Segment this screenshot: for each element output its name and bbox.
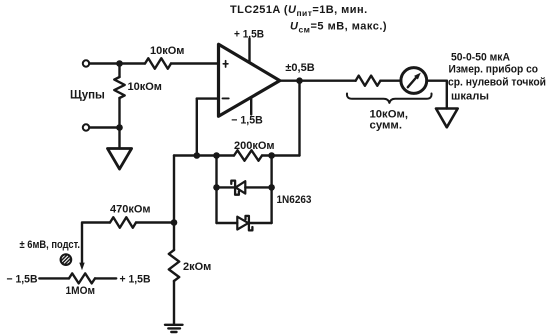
svg-text:Щупы: Щупы (70, 90, 105, 102)
svg-text:10кОм: 10кОм (150, 45, 184, 57)
terminal input top (83, 60, 89, 66)
svg-text:±0,5В: ±0,5В (285, 62, 314, 74)
wire R1 to op-amp + input (171, 62, 219, 64)
wire diode box left vertical (215, 156, 217, 224)
node output junction (296, 77, 303, 84)
node 470k junction (171, 219, 178, 226)
op-amp + input symbol (223, 63, 228, 65)
svg-text:+ 1,5В: + 1,5В (234, 29, 264, 41)
wire inverting input horizontal (197, 97, 219, 99)
svg-text:ср. нулевой точкой: ср. нулевой точкой (448, 77, 546, 89)
ground bottom (bars) (165, 324, 183, 326)
wire top input (89, 62, 145, 64)
resistor R5 2kOhm zigzag (169, 250, 179, 281)
wire left branch vertical upper (173, 156, 175, 251)
node diode box left top (213, 152, 220, 159)
ground input (triangle) (108, 149, 132, 170)
diode D2 1N6263 (points right) triangle (237, 217, 248, 230)
resistor R2 10kOhm shunt zigzag (114, 77, 124, 98)
wire pot left lead (39, 277, 69, 279)
meter M1 (microammeter) (401, 68, 427, 94)
wiper arrow head (79, 263, 84, 271)
wire diode box right vertical (270, 156, 272, 224)
diode D2 cathode bar (246, 216, 253, 231)
svg-text:200кОм: 200кОм (234, 140, 275, 152)
node top input junction (116, 60, 123, 67)
wire diode D2 right lead (249, 222, 272, 224)
svg-text:+ 1,5В: + 1,5В (120, 274, 151, 286)
diode D1 triangle (236, 181, 246, 193)
node bottom input junction (116, 124, 123, 131)
svg-text:Измер. прибор со: Измер. прибор со (449, 64, 539, 76)
wire positive supply (248, 39, 250, 62)
svg-text:сумм.: сумм. (370, 120, 403, 132)
screw adjust symbol (61, 254, 72, 265)
wire feedback rail right (262, 154, 300, 156)
svg-text:50-0-50 мкА: 50-0-50 мкА (451, 52, 510, 64)
brace 10kOhm total (347, 94, 432, 103)
op-amp - input symbol (223, 97, 229, 99)
node diode box right top (268, 152, 275, 159)
wire resistor to meter (380, 79, 401, 81)
node diode D1 left (213, 184, 220, 191)
svg-text:2кОм: 2кОм (183, 261, 211, 273)
svg-text:шкалы: шкалы (451, 91, 489, 103)
resistor R4 200kOhm feedback (234, 150, 262, 160)
diode D1 1N6263 (points left) cathode bar (231, 181, 239, 195)
wire meter to ground (427, 79, 447, 81)
wire diode D2 left lead (217, 222, 238, 224)
svg-text:10кОм: 10кОм (128, 81, 162, 93)
terminal input bottom (83, 124, 89, 130)
wire negative supply (250, 97, 252, 114)
wire feedback rail left (174, 154, 234, 156)
node inverting input to rail (194, 152, 201, 159)
wire op-amp output (280, 79, 356, 81)
svg-text:− 1,5В: − 1,5В (7, 274, 38, 286)
potentiometer R7 1MOhm zigzag (69, 273, 95, 283)
wire 470k left lead and corner (82, 223, 110, 264)
ground meter (triangle) (436, 109, 458, 128)
resistor R1 10kOhm series (145, 58, 171, 68)
node diode D1 right (268, 184, 275, 191)
wire diode D1 right lead (245, 186, 271, 188)
resistor R3 10kOhm meter sum (356, 76, 381, 86)
op-amp U1 TLC251A (219, 44, 280, 116)
svg-text:1МОм: 1МОм (66, 285, 96, 297)
wire diode D1 left lead (217, 186, 236, 188)
wire 2k to ground (173, 281, 175, 325)
wire pot right lead (95, 277, 116, 279)
svg-text:1N6263: 1N6263 (277, 194, 312, 206)
svg-text:− 1,5В: − 1,5В (231, 115, 263, 127)
wire to input ground (118, 128, 120, 149)
resistor R2 10kOhm shunt leads (118, 64, 120, 78)
resistor R6 470kOhm (110, 217, 136, 227)
wire inverting input vertical (196, 99, 198, 156)
wire 470k right lead (136, 221, 174, 223)
wire bottom input (89, 126, 119, 128)
wire output feedback drop (298, 81, 300, 156)
svg-text:470кОм: 470кОм (110, 204, 151, 216)
svg-text:± 6мВ, подст.: ± 6мВ, подст. (20, 239, 81, 251)
